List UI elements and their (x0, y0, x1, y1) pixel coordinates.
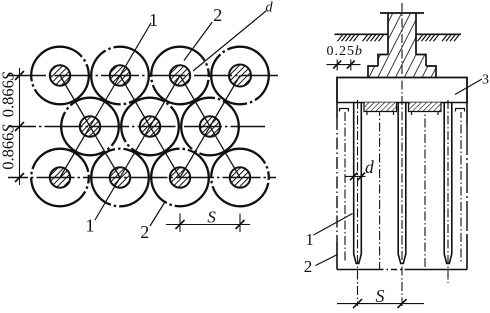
big circle B3 (151, 149, 209, 207)
ground line right (416, 33, 461, 35)
pile circle B3 (170, 167, 190, 187)
svg-text:0.25b: 0.25b (327, 44, 364, 59)
mesh line M1-B1 (60, 127, 90, 178)
pile circle M2 (140, 116, 160, 136)
big circle T1 (31, 47, 89, 105)
mesh line T3-M3 (180, 76, 210, 127)
svg-text:2: 2 (140, 222, 149, 242)
svg-text:S: S (207, 207, 216, 226)
0.25b ext tick left (336, 60, 338, 71)
S dim oblique tick left (353, 299, 362, 308)
big circle B4 (211, 149, 269, 207)
0.25b dimension line (327, 64, 361, 66)
column hatch fill (368, 13, 436, 78)
vertical dimension line 0.866S (19, 68, 21, 185)
back-row pile centerline (left margin) (344, 112, 346, 263)
svg-text:1: 1 (86, 215, 95, 235)
pile 2 (section) (398, 103, 406, 264)
leader label 3 (455, 79, 482, 95)
big circle T4 (211, 47, 269, 105)
back-row pile centerline (right margin) (460, 112, 462, 263)
pile circle M1 (80, 116, 100, 136)
leader for top label d (193, 11, 266, 71)
d oblique tick left (350, 173, 357, 181)
svg-text:d: d (365, 157, 374, 177)
big circle M3 (181, 98, 239, 156)
leader label 2 (section) (316, 255, 338, 266)
0.25b oblique tick right (347, 61, 355, 69)
big circle B1 (31, 149, 89, 207)
svg-text:3: 3 (482, 72, 489, 87)
big circle M2 (121, 98, 179, 156)
pile circle T2 (110, 65, 130, 85)
svg-text:S: S (376, 286, 385, 306)
pile circle B4 (230, 167, 250, 187)
bottom S dim oblique tick left (176, 220, 185, 229)
leader label 1 (section) (314, 214, 353, 236)
S dim oblique tick right (398, 299, 407, 308)
big circle T3 (151, 47, 209, 105)
mesh line M3-B4 (210, 127, 240, 178)
mesh line T2-M2 (120, 76, 150, 127)
row 1 center chain line (8, 75, 278, 77)
bottom S dim oblique tick right (236, 220, 245, 229)
bottom S dimension line (166, 224, 250, 226)
dim tick row3 (15, 173, 24, 182)
right margin soil line (456, 109, 465, 112)
pile circle B1 (50, 167, 70, 187)
column right wall (415, 13, 417, 55)
mesh line M3-B3 (180, 127, 210, 178)
big circle T2 (91, 47, 149, 105)
svg-text:2: 2 (304, 257, 313, 276)
step 1 outline (378, 55, 426, 67)
slab bottom line (337, 102, 467, 104)
cushion strip between pile1-pile2 (364, 103, 397, 116)
svg-text:1: 1 (149, 10, 158, 30)
pile circle M3 (200, 116, 220, 136)
pile circle T4 (229, 65, 251, 87)
dim tick row2 (15, 122, 24, 131)
row 2 center chain line (8, 126, 265, 128)
mesh line M3-T4 (210, 76, 240, 127)
leader for bottom label 2 (150, 201, 166, 226)
ground hatch left (338, 34, 385, 41)
step 2 outline (368, 66, 436, 78)
mesh line M1-T2 extended to label 1 (90, 23, 151, 127)
d dimension line (345, 175, 366, 177)
block bottom line (337, 269, 378, 271)
svg-text:0.866S: 0.866S (0, 124, 18, 169)
footing slab (3) outline (337, 78, 467, 103)
pile circle T3 (170, 65, 190, 85)
mesh line M2-T3 (150, 76, 180, 127)
ground hatch right (418, 34, 460, 41)
pile 3 (section) (444, 103, 452, 264)
svg-text:d: d (265, 0, 273, 15)
svg-text:1: 1 (306, 230, 314, 249)
d oblique tick right (358, 173, 365, 181)
mesh line M1-B2 (90, 127, 120, 178)
svg-text:2: 2 (213, 5, 222, 25)
ground line left (335, 33, 389, 35)
pile circle T1 (50, 65, 70, 85)
svg-text:0.866S: 0.866S (0, 72, 18, 117)
pile 1 (section) (354, 103, 362, 264)
column cut top line (380, 12, 424, 14)
pile 3 centerline (447, 100, 449, 283)
0.25b ext tick right (350, 60, 352, 71)
block left wall (336, 103, 338, 119)
pile 1 centerline (357, 100, 359, 306)
column left wall (387, 13, 389, 55)
back-row pile centerline (between pile1-pile2) (379, 112, 381, 270)
dim tick row1 (15, 71, 24, 80)
mesh line M2-B3 (150, 127, 180, 178)
mesh line T1-M1 (60, 76, 90, 127)
bottom S dimension: left extension tick (179, 214, 181, 233)
block right wall (466, 103, 468, 126)
mesh line M2-B2 extended to bottom label 1 (95, 127, 150, 221)
S dimension line (section) (337, 303, 424, 305)
big circle M1 (61, 98, 119, 156)
bottom S dimension: right extension tick (239, 214, 241, 233)
row 3 center chain line (8, 177, 276, 179)
cushion strip between pile2-pile3 (409, 103, 442, 116)
leader for top label 2 (184, 22, 212, 60)
left margin soil line (340, 109, 349, 112)
back-row pile centerline (between pile2-pile3) (424, 112, 426, 270)
column + pile 2 centerline (401, 3, 403, 306)
pile circle B2 (110, 167, 130, 187)
0.25b oblique tick left (333, 61, 341, 69)
big circle B2 (91, 149, 149, 207)
